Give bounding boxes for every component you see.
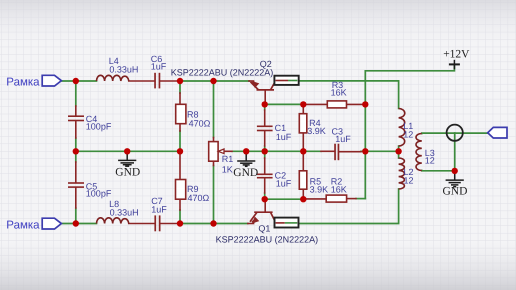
- svg-text:1uF: 1uF: [276, 178, 292, 188]
- svg-text:1uF: 1uF: [276, 132, 292, 142]
- svg-text:0.33uH: 0.33uH: [109, 64, 138, 74]
- svg-text:12: 12: [403, 129, 413, 139]
- svg-text:3.9K: 3.9K: [307, 126, 326, 136]
- svg-text:100pF: 100pF: [86, 122, 112, 132]
- svg-text:100pF: 100pF: [86, 189, 112, 199]
- svg-text:1uF: 1uF: [151, 204, 167, 214]
- svg-text:0.33uH: 0.33uH: [110, 208, 139, 218]
- svg-text:16K: 16K: [331, 88, 347, 98]
- svg-text:3.9K: 3.9K: [310, 185, 329, 195]
- svg-text:12: 12: [425, 155, 435, 165]
- svg-text:1uF: 1uF: [335, 134, 351, 144]
- svg-text:GND: GND: [233, 167, 258, 179]
- svg-text:Q1: Q1: [258, 223, 270, 233]
- svg-text:Рамка: Рамка: [6, 76, 40, 88]
- svg-text:+12V: +12V: [443, 49, 470, 61]
- svg-text:R1: R1: [222, 154, 234, 164]
- svg-text:Q2: Q2: [260, 59, 272, 69]
- svg-text:1uF: 1uF: [151, 62, 167, 72]
- svg-text:470Ω: 470Ω: [189, 118, 211, 128]
- svg-text:GND: GND: [443, 186, 468, 198]
- svg-text:GND: GND: [115, 167, 140, 179]
- svg-text:Рамка: Рамка: [6, 219, 40, 231]
- svg-text:16K: 16K: [331, 185, 347, 195]
- svg-text:KSP2222ABU (2N2222A): KSP2222ABU (2N2222A): [216, 235, 319, 245]
- svg-text:1K: 1K: [222, 164, 233, 174]
- svg-text:470Ω: 470Ω: [188, 193, 210, 203]
- svg-text:KSP2222ABU (2N2222A): KSP2222ABU (2N2222A): [171, 68, 274, 78]
- svg-text:12: 12: [404, 175, 414, 185]
